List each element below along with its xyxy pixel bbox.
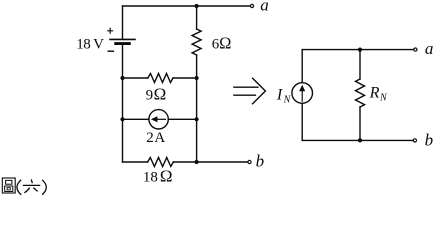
- resistor RN (vertical zigzag): [356, 79, 365, 107]
- svg-text:R: R: [369, 85, 380, 102]
- node b terminal (right circuit, open circle): [413, 139, 416, 142]
- wire 9ohm row right segment: [173, 77, 197, 79]
- battery V1 long plate (+): [110, 38, 135, 40]
- wire left vertical upper (right circuit): [301, 50, 303, 83]
- wire middle vertical (9ohm row to 2A row): [196, 78, 198, 119]
- node junction dot 2A row left: [120, 117, 124, 121]
- wire RN vertical upper: [359, 50, 361, 79]
- caption glyph tu (figure): [2, 178, 15, 193]
- current source 2A circle: [149, 110, 168, 129]
- svg-text:b: b: [256, 152, 265, 171]
- wire middle vertical (2A row to bottom wire): [196, 119, 198, 162]
- resistor 9ohm (horizontal zigzag): [148, 74, 173, 83]
- wire left vertical lower (battery - plate to bottom wire): [122, 44, 124, 162]
- svg-text:Ω: Ω: [219, 33, 231, 52]
- node junction dot 9ohm row right: [195, 76, 199, 80]
- wire top horizontal (right circuit): [302, 49, 413, 51]
- svg-text:Ω: Ω: [154, 85, 167, 104]
- node junction dot top right circuit: [358, 48, 362, 52]
- battery V1 minus sign: [108, 50, 113, 52]
- battery V1 plus sign: [108, 28, 113, 33]
- wire RN vertical lower: [359, 107, 361, 140]
- wire 9ohm row left segment: [123, 77, 148, 79]
- node junction dot bottom: [195, 160, 199, 164]
- wire 2A row left segment: [123, 118, 149, 120]
- resistor 6ohm (vertical zigzag): [192, 29, 201, 55]
- wire left vertical lower (right circuit): [301, 103, 303, 140]
- caption close paren: [42, 180, 46, 195]
- svg-text:18: 18: [143, 169, 158, 185]
- svg-text:N: N: [379, 93, 388, 104]
- node junction dot 2A row right: [195, 117, 199, 121]
- svg-text:18 V: 18 V: [76, 37, 104, 53]
- caption open paren: [17, 180, 21, 195]
- node a terminal (left circuit, open circle): [250, 4, 253, 7]
- node junction dot 9ohm row left: [120, 76, 124, 80]
- node junction dot bottom right circuit: [358, 138, 362, 142]
- wire bottom right segment (to terminal b): [173, 161, 247, 163]
- svg-text:2: 2: [146, 130, 154, 146]
- node b terminal (left circuit, open circle): [248, 160, 251, 163]
- current source IN circle: [292, 83, 313, 104]
- svg-text:b: b: [425, 131, 434, 150]
- wire left vertical upper (top wire to battery + plate): [122, 6, 124, 39]
- svg-text:A: A: [154, 130, 165, 146]
- current source IN arrow (pointing up): [301, 91, 303, 102]
- svg-text:a: a: [425, 39, 434, 58]
- svg-text:a: a: [260, 0, 269, 15]
- svg-text:I: I: [276, 87, 283, 104]
- wire 2A row right segment: [168, 118, 196, 120]
- wire top-left horizontal (battery top to terminal a): [123, 5, 251, 7]
- wire middle vertical top (top wire to 6ohm resistor): [196, 6, 198, 29]
- battery V1 short plate (-): [116, 42, 130, 45]
- caption glyph liu (six): [23, 179, 41, 192]
- resistor 18ohm (horizontal zigzag): [148, 158, 174, 167]
- implication double arrow: [234, 78, 266, 104]
- node junction dot top: [195, 4, 199, 8]
- wire bottom horizontal (right circuit): [302, 139, 413, 141]
- wire middle vertical (6ohm to 9ohm row): [196, 55, 198, 78]
- current source 2A arrow (pointing left): [157, 118, 166, 120]
- wire bottom left segment: [123, 161, 148, 163]
- svg-text:Ω: Ω: [160, 166, 173, 185]
- node a terminal (right circuit, open circle): [414, 48, 417, 51]
- svg-text:N: N: [283, 94, 292, 105]
- svg-text:9: 9: [146, 88, 154, 104]
